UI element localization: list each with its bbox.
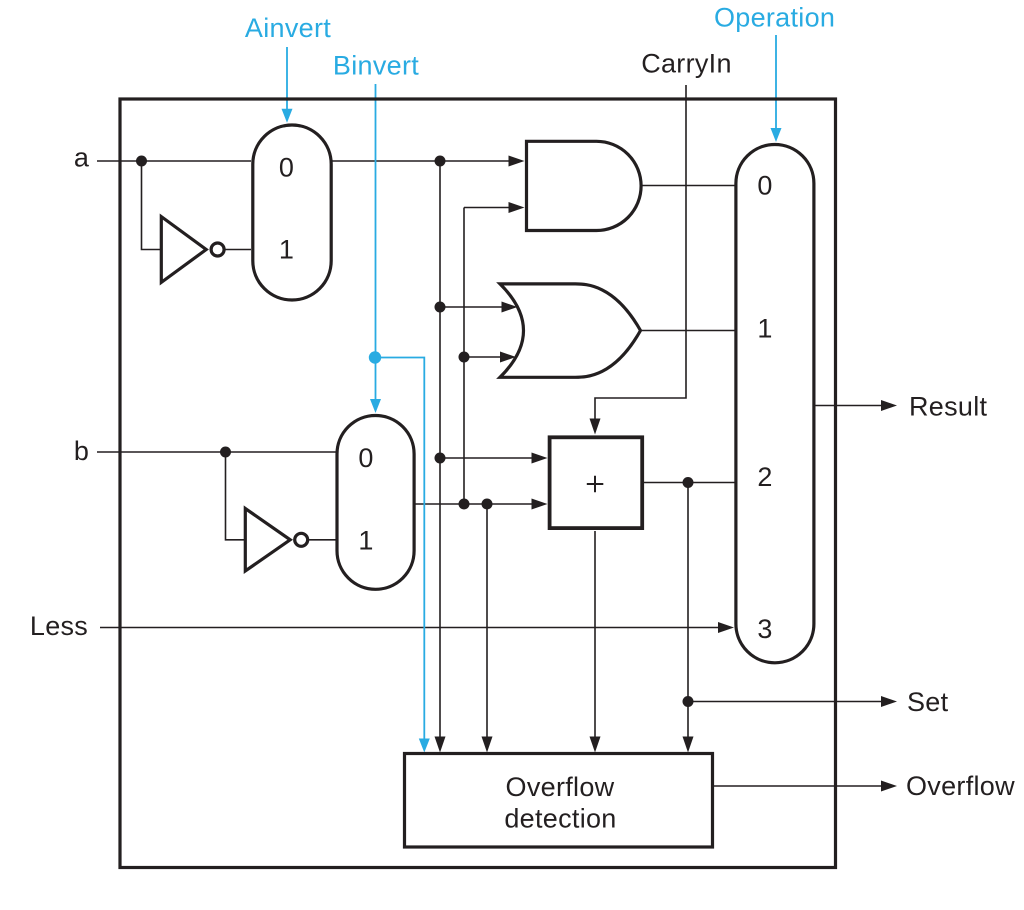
svg-text:1: 1 [358,526,373,556]
svg-text:Overflow: Overflow [506,772,615,802]
svg-text:2: 2 [757,462,772,492]
svg-text:Ainvert: Ainvert [245,13,331,43]
svg-text:1: 1 [757,314,772,344]
svg-text:Less: Less [30,611,88,641]
svg-text:Result: Result [909,392,988,422]
svg-text:a: a [74,143,90,173]
svg-text:0: 0 [358,443,373,473]
svg-text:3: 3 [757,614,772,644]
svg-text:0: 0 [279,152,294,182]
svg-text:b: b [74,436,89,466]
svg-text:Overflow: Overflow [906,771,1015,801]
svg-text:CarryIn: CarryIn [641,49,732,79]
svg-text:Binvert: Binvert [333,51,419,81]
svg-text:1: 1 [279,235,294,265]
svg-text:detection: detection [504,804,616,834]
svg-text:0: 0 [757,170,772,200]
svg-text:Set: Set [907,687,949,717]
svg-text:Operation: Operation [714,3,835,33]
